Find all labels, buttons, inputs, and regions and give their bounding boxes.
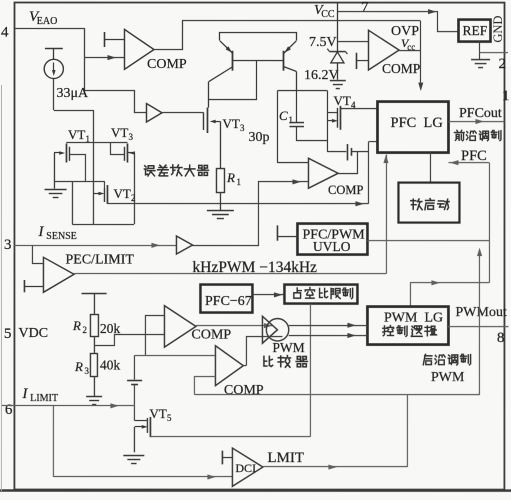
- svg-text:R: R: [72, 318, 81, 333]
- label PFC COMP: [328, 183, 363, 197]
- svg-text:VT: VT: [68, 127, 85, 142]
- wire PFCout: [448, 119, 504, 124]
- label VDC COMP: [191, 328, 231, 343]
- wire bottom loop: [72, 182, 134, 225]
- buffer ISENSE triangle: [176, 236, 192, 254]
- svg-text:PFC−67: PFC−67: [205, 294, 252, 309]
- label PFC LG: [390, 115, 443, 131]
- label 20k: [100, 321, 121, 336]
- wire Q2 collector down: [295, 71, 297, 90]
- transistor VT2 body arrow: [94, 192, 105, 196]
- wire base rail: [233, 60, 284, 62]
- svg-text:COMP: COMP: [147, 57, 187, 72]
- label OVP: [391, 24, 419, 39]
- block PWM LG box: [367, 307, 448, 345]
- svg-text:PFC: PFC: [461, 148, 487, 164]
- block PFC LG box: [377, 102, 448, 153]
- label PEC LIMIT: [65, 253, 134, 268]
- wire bigcomp output stub: [243, 365, 246, 367]
- label REF: [462, 23, 487, 38]
- wire central vertical: [92, 110, 94, 224]
- OVP ref bar: [356, 53, 368, 69]
- svg-text:1: 1: [236, 177, 241, 187]
- wire ILIMIT to DCI: [54, 474, 233, 479]
- svg-text:VT: VT: [222, 116, 239, 131]
- svg-text:5: 5: [4, 326, 12, 342]
- wire current source down: [52, 79, 54, 111]
- wire softstart stub: [429, 152, 431, 182]
- svg-text:20k: 20k: [100, 321, 121, 336]
- svg-text:VT: VT: [333, 93, 350, 108]
- label PFCout: [459, 106, 502, 121]
- ground zener: [330, 81, 346, 89]
- label trailing edge mod: [423, 354, 470, 365]
- wire Q1 collector down: [207, 82, 209, 108]
- svg-text:I: I: [37, 224, 44, 240]
- wire pin6 ILIMIT: [2, 403, 135, 408]
- svg-text:5: 5: [167, 413, 172, 423]
- transistor VT2 gate bar: [103, 188, 105, 202]
- wire PWMout: [448, 326, 509, 328]
- wire 30p column: [276, 91, 278, 163]
- wire ILIMIT drop: [52, 406, 54, 477]
- svg-text:R: R: [74, 359, 83, 374]
- wire PFC feedback bottom: [410, 280, 489, 285]
- node VCC label: [314, 3, 335, 20]
- ground REF: [471, 60, 490, 68]
- block REF box: [458, 20, 490, 42]
- wire VT4 drain: [340, 108, 377, 110]
- label VT3: [222, 116, 245, 133]
- wire pin2: [479, 52, 508, 54]
- wire buffer to VT3 gate: [162, 112, 204, 114]
- svg-text:COMP: COMP: [328, 183, 363, 197]
- transistor VT3s channel: [126, 144, 128, 163]
- svg-text:3: 3: [128, 132, 133, 142]
- comparator PWM circle: [266, 319, 288, 341]
- wire VEAO down: [83, 28, 85, 90]
- transistor Q2 collector: [283, 67, 296, 72]
- transistor VT4 body arrow: [327, 119, 338, 123]
- label control logic: [383, 326, 437, 337]
- ground under R1: [207, 211, 234, 219]
- svg-text:C: C: [279, 108, 288, 123]
- transistor VT5 body arrow: [135, 425, 148, 429]
- wire to mirror node: [54, 110, 94, 112]
- resistor R2: [90, 315, 98, 337]
- label VT1: [68, 127, 90, 144]
- svg-text:7.5V: 7.5V: [309, 35, 337, 50]
- pin 6 label: [5, 402, 13, 418]
- node ISENSE label: [37, 224, 76, 242]
- wire C1 loop right: [326, 91, 328, 152]
- resistor R3: [90, 354, 97, 377]
- svg-text:PFCout: PFCout: [459, 106, 502, 121]
- transistor VT3s gate bar: [123, 147, 125, 161]
- ground R3: [86, 397, 102, 405]
- wire R2 R3 junction: [93, 337, 95, 354]
- wire VCC vertical: [336, 3, 338, 52]
- svg-text:PFC LG: PFC LG: [390, 115, 443, 131]
- wire kHz up to PFC LG: [383, 155, 388, 274]
- current source arrow: [52, 63, 56, 77]
- label OVP COMP: [382, 61, 420, 76]
- resistor R1: [216, 169, 224, 193]
- battery offset V2: [127, 381, 142, 385]
- label DCI: [235, 461, 256, 475]
- wire VT4 source: [327, 151, 346, 153]
- wire VT5 source down: [133, 427, 135, 453]
- label OVP Vcc: [401, 36, 415, 52]
- VDC rail bar: [82, 293, 107, 295]
- PEC ref bar: [24, 280, 43, 292]
- svg-text:1: 1: [288, 115, 293, 125]
- wire VT5 drain: [150, 436, 311, 438]
- label 33uA: [56, 86, 89, 101]
- svg-text:COMP: COMP: [224, 383, 264, 398]
- svg-text:4: 4: [1, 25, 9, 41]
- block PFC-67 box: [200, 285, 252, 313]
- op-amp PFC COMP triangle: [308, 158, 338, 188]
- transistor VT3 body arrow: [210, 120, 221, 124]
- svg-text:kHzPWM −134kHz: kHzPWM −134kHz: [192, 259, 317, 276]
- transistor Q2 bar: [282, 51, 284, 71]
- svg-text:3: 3: [84, 366, 89, 376]
- wire PFC feedback vertical: [488, 163, 490, 283]
- block soft start box: [398, 183, 459, 223]
- node VEAO label: [29, 9, 57, 27]
- wire shutdown long: [195, 394, 480, 396]
- op-amp PEC LIMIT triangle: [43, 257, 74, 292]
- transistor VT3 channel: [206, 108, 208, 134]
- wire LMIT: [263, 465, 408, 470]
- wire drain loop top: [66, 142, 127, 144]
- wire PEC output kHz: [74, 273, 386, 275]
- UVLO ref bar: [277, 225, 297, 240]
- wire to PFC comp upper input: [277, 162, 308, 164]
- pin 4 label: [1, 25, 9, 41]
- pin 1 label: [502, 88, 510, 104]
- label C1: [279, 108, 293, 125]
- svg-text:REF: REF: [462, 23, 487, 38]
- svg-text:GND: GND: [491, 16, 505, 43]
- svg-text:COMP: COMP: [382, 61, 420, 76]
- transistor Q1 bar: [231, 51, 233, 71]
- wire OVP down to PFC LG: [418, 21, 423, 91]
- label GND rotated: [491, 16, 505, 43]
- svg-text:2: 2: [82, 325, 87, 335]
- wire into PFC LG left: [368, 141, 377, 143]
- svg-text:1: 1: [502, 88, 510, 104]
- svg-text:UVLO: UVLO: [313, 239, 351, 254]
- wire bigcomp lower input: [194, 377, 215, 395]
- wire error amp up: [367, 142, 369, 204]
- transistor VT1 body arrow: [54, 151, 65, 155]
- buffer DCI triangle: [232, 448, 263, 486]
- pin 3 label: [4, 237, 12, 253]
- capacitor C1: [289, 91, 304, 141]
- svg-text:40k: 40k: [100, 358, 121, 373]
- wire VEAO from pin 4: [14, 28, 84, 30]
- transistor Q1 emitter: [220, 41, 234, 54]
- svg-text:CC: CC: [321, 9, 335, 20]
- svg-text:PWM: PWM: [431, 370, 465, 385]
- wire shutdown up: [477, 248, 482, 396]
- battery offset V1: [347, 144, 351, 160]
- label R3: [74, 359, 90, 376]
- svg-text:8: 8: [497, 330, 505, 346]
- svg-text:PEC/LIMIT: PEC/LIMIT: [65, 253, 134, 268]
- transistor Q2 emitter: [283, 41, 296, 54]
- label comparator: [264, 356, 307, 368]
- wire COMP1 output: [154, 21, 420, 50]
- wire PFC-67 to duty: [252, 292, 284, 297]
- svg-text:COMP: COMP: [191, 328, 231, 343]
- wire duty limit down: [309, 304, 311, 437]
- current source supply bar: [45, 48, 63, 50]
- label 16.2V: [304, 68, 339, 83]
- wire battery2 top: [133, 355, 135, 379]
- wire VT1 gate lead: [69, 155, 85, 182]
- label VT2: [113, 186, 135, 203]
- transistor VT4 channel: [339, 106, 341, 130]
- transistor VT1 channel: [65, 144, 67, 163]
- left edge scan line: [0, 85, 2, 491]
- svg-text:VT: VT: [111, 125, 128, 140]
- wire VT3s source lead: [133, 153, 135, 224]
- wire VT2 drain output: [108, 201, 369, 206]
- label error amplifier: [144, 165, 208, 176]
- svg-text:3: 3: [4, 237, 12, 253]
- label VT5: [149, 406, 172, 423]
- label PWM comp: [272, 340, 304, 355]
- label leading edge mod: [454, 130, 501, 140]
- node ILIMIT label: [21, 386, 58, 404]
- zener diode VZ: [327, 49, 347, 63]
- svg-text:EAO: EAO: [37, 16, 58, 27]
- svg-text:3: 3: [240, 123, 245, 133]
- wire battery to node: [352, 151, 369, 153]
- transistor VT1 gate bar: [68, 147, 70, 161]
- label LMIT: [267, 450, 304, 466]
- svg-text:7: 7: [361, 0, 369, 16]
- wire comp out upper: [289, 323, 368, 328]
- label PFC-67: [205, 294, 252, 309]
- label R1: [226, 170, 241, 187]
- label UVLO: [313, 239, 351, 254]
- transistor VT2 channel: [106, 185, 108, 204]
- op-amp VDC COMP triangle: [164, 306, 196, 348]
- block duty limit box: [284, 285, 357, 304]
- label big COMP: [224, 383, 264, 398]
- svg-text:SENSE: SENSE: [46, 231, 77, 242]
- pin 5 label: [4, 326, 12, 342]
- label R2: [72, 318, 87, 335]
- svg-text:LIMIT: LIMIT: [30, 393, 58, 404]
- wire gates row: [54, 181, 105, 183]
- buffer triangle: [146, 104, 162, 123]
- pin 8 label: [497, 330, 505, 346]
- wire to bigcomp upper: [135, 355, 216, 357]
- wire VT4 gate lead: [327, 112, 337, 114]
- comparator PWM triangle: [262, 316, 277, 343]
- svg-text:VDC: VDC: [18, 326, 48, 341]
- wire divider tap: [94, 335, 164, 346]
- wire base drop: [208, 61, 256, 100]
- label VT3 small: [111, 125, 134, 142]
- transistor Q1 collector: [209, 67, 233, 82]
- wire comp out lower: [289, 333, 368, 338]
- DCI ref bar: [222, 451, 233, 465]
- svg-text:2: 2: [131, 193, 136, 203]
- block UVLO box: [297, 224, 367, 255]
- current source I1 circle: [44, 59, 63, 78]
- svg-text:30p: 30p: [248, 130, 269, 145]
- svg-text:PWM LG: PWM LG: [384, 311, 443, 326]
- wire comp input link: [145, 316, 164, 356]
- label COMP1: [147, 57, 187, 72]
- wire VT3s gate lead: [110, 143, 124, 155]
- svg-text:DCI: DCI: [235, 461, 256, 475]
- wire PFC COMP output: [338, 152, 357, 174]
- wire C1 loop bottom: [296, 140, 327, 142]
- label trailing PWM: [431, 370, 465, 385]
- current source stem: [52, 49, 54, 60]
- wire pin3 tap to PEC: [32, 246, 43, 264]
- svg-text:LMIT: LMIT: [267, 450, 304, 466]
- label 7.5V: [309, 35, 337, 50]
- svg-text:6: 6: [5, 402, 13, 418]
- wire REF to ground: [478, 42, 480, 60]
- pin 2 label: [498, 56, 506, 72]
- wire LMIT up: [406, 395, 408, 467]
- svg-text:PWM: PWM: [272, 340, 304, 355]
- wire zener to ground: [336, 63, 338, 80]
- ground under VT1: [45, 190, 67, 198]
- transistor VT5 gate bar: [146, 418, 148, 433]
- transistor VT1 source lead: [53, 153, 55, 189]
- transistor VT5 channel: [149, 417, 151, 437]
- transistor VT4 gate bar: [336, 108, 338, 128]
- svg-text:2: 2: [498, 56, 506, 72]
- wire ISENSE to comp: [192, 179, 308, 245]
- op-amp COMP1 triangle: [124, 29, 154, 69]
- label soft start: [411, 199, 449, 210]
- svg-text:R: R: [226, 170, 235, 185]
- svg-text:PWMout: PWMout: [455, 305, 506, 320]
- wire R1 to ground: [219, 193, 221, 210]
- pin 7 label: [361, 0, 369, 16]
- wire PFC feedback left: [448, 160, 489, 165]
- wire VDC stem: [93, 293, 95, 315]
- op-amp big COMP triangle: [215, 346, 243, 386]
- wire battery2 to VT5: [133, 385, 135, 421]
- label PFC net: [461, 148, 487, 164]
- wire VT5 gate lead: [135, 420, 148, 422]
- wire VT3 source down: [219, 121, 221, 168]
- transistor VT3 gate bar: [202, 112, 204, 130]
- wire bigcomp to comparator: [246, 337, 282, 366]
- wire pin7: [337, 9, 458, 31]
- label PWMout: [455, 305, 506, 320]
- wire VT2 gate drop: [103, 182, 105, 189]
- svg-text:VT: VT: [149, 406, 166, 421]
- svg-text:33μA: 33μA: [56, 86, 89, 101]
- wire C1 node top: [277, 90, 327, 92]
- wire pin3: [14, 243, 176, 248]
- wire R3 to ground: [93, 376, 95, 396]
- label kHzPWM: [192, 259, 317, 276]
- label VDC: [18, 326, 48, 341]
- op-amp COMP1 ref bar: [104, 32, 124, 47]
- wire PWM LG top stub: [409, 283, 411, 306]
- svg-text:VT: VT: [113, 186, 130, 201]
- ground VT5: [123, 456, 144, 464]
- wire VEAO to COMP input: [85, 55, 124, 60]
- wire VEAO to buffer: [84, 91, 146, 113]
- label 30p: [248, 130, 269, 145]
- label VT4: [333, 93, 356, 110]
- svg-text:I: I: [21, 386, 28, 402]
- label 40k: [100, 358, 121, 373]
- wire VCC to OVP: [337, 41, 368, 43]
- transistor VT3s body arrow: [128, 151, 135, 155]
- mirror top rail: [219, 33, 296, 41]
- wire VDC comp out: [196, 323, 273, 328]
- wire OVP output: [399, 50, 421, 52]
- bottom border line: [0, 489, 511, 492]
- label PFC/PWM: [302, 228, 365, 243]
- wire UVLO output: [367, 240, 489, 242]
- label duty limit: [294, 288, 353, 299]
- op-amp OVP triangle: [368, 30, 399, 70]
- label PWM LG: [384, 311, 443, 326]
